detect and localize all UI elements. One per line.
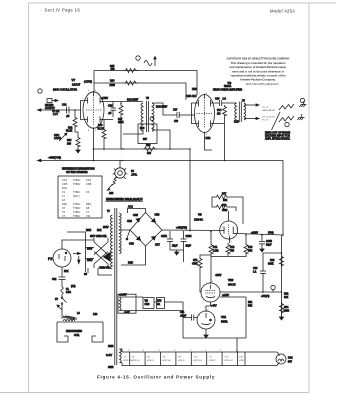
svg-text:AMP-ADJ: AMP-ADJ [186,95,197,98]
svg-text:BLK+WHT: BLK+WHT [156,106,168,109]
svg-text:HTR 3,4: HTR 3,4 [225,360,234,362]
terminal 3 circled [300,98,304,102]
capacitor C24 [67,107,70,114]
degaussing bracket [57,322,103,342]
svg-text:C27: C27 [173,109,178,112]
heater labels [124,357,244,363]
waveform head drive top [279,104,294,110]
tube V8 internals [192,95,215,129]
svg-text:150: 150 [111,68,116,71]
svg-text:F1: F1 [62,190,66,194]
wire T5 right bottom [152,130,170,149]
svg-text:56K: 56K [248,305,253,308]
wire V7 cathode [74,110,76,116]
wire T6 out bottom [244,118,257,120]
svg-text:HTR: HTR [206,137,211,140]
svg-text:C24: C24 [62,178,67,182]
svg-text:5: 5 [220,350,221,352]
svg-text:1080: 1080 [110,84,116,87]
svg-text:1: 1 [128,350,129,352]
copyright notice block [227,58,290,87]
wire P2 down [61,267,63,277]
wire grid row [210,255,213,283]
svg-text:25µF: 25µF [186,245,192,248]
bias module box [118,294,136,313]
thermistor arrow [58,306,62,310]
svg-text:56.2K: 56.2K [66,130,73,133]
svg-text:#47: #47 [288,361,293,364]
svg-text:R69: R69 [146,144,151,147]
fuse F3 [113,166,128,179]
selector switch S8 [86,238,109,272]
svg-text:T7: T7 [86,210,90,214]
wire F3 top lead [119,161,121,166]
heater bus bottom [120,363,278,366]
ground V11 [205,329,207,333]
svg-text:RED: RED [128,262,133,265]
svg-text:GRY ORN+YEL: GRY ORN+YEL [90,235,108,238]
wire P2 top [62,240,94,249]
svg-text:THRU: THRU [73,214,80,218]
svg-text:TO CLUTCH: TO CLUTCH [262,117,275,119]
svg-text:TO #5: TO #5 [262,120,269,122]
svg-text:68K: 68K [223,199,228,202]
svg-text:and maintenance of Hewlett-Pac: and maintenance of Hewlett-Packard equip… [230,65,287,69]
svg-text:4000: 4000 [222,209,228,212]
svg-text:6AU6: 6AU6 [228,283,236,287]
reference designators box [58,176,102,218]
svg-text:(-175V): (-175V) [84,80,92,83]
wire bridge left [121,229,130,231]
node 6 circled [150,117,154,121]
svg-text:0.6A: 0.6A [66,291,71,294]
capacitor C27 [177,112,179,118]
fuse F1 [61,287,64,294]
tube V10 envelope [201,283,220,302]
wire V7 plate to T5 [104,101,143,103]
svg-text:V7: V7 [62,214,66,218]
svg-text:CR6: CR6 [129,243,134,246]
wire second rail [94,83,186,100]
terminal 4 circled [285,122,289,126]
resistor R63 [102,128,106,140]
svg-text:4: 4 [143,350,144,352]
wire C28 to T6 [222,102,237,104]
svg-text:C32: C32 [52,278,57,281]
tube pin dots [93,91,230,312]
switch S8 wiper [104,253,111,262]
wire T5 left bottom [123,130,143,134]
svg-text:(A07): (A07) [73,194,80,198]
svg-text:CR8: CR8 [155,214,160,217]
svg-text:CR5: CR5 [133,214,138,217]
svg-text:CR5: CR5 [62,182,68,186]
transformer T7 heater winding [120,349,122,363]
svg-text:CR8: CR8 [86,182,92,186]
resistor R74 [223,105,227,117]
svg-text:100K: 100K [284,310,290,313]
svg-text:204C OSCILLATOR: 204C OSCILLATOR [53,88,77,92]
svg-text:HTR 3,4: HTR 3,4 [194,360,203,362]
svg-text:THRU: THRU [73,202,80,206]
svg-text:470K: 470K [192,263,198,266]
resistor R66 [124,81,138,85]
tube V11 envelope [197,311,215,329]
svg-text:P2: P2 [48,257,52,261]
switch S7 [61,295,63,298]
wire -465 rail [39,160,284,162]
svg-text:10K: 10K [284,296,289,299]
svg-text:A02: A02 [109,192,114,195]
svg-text:A02: A02 [93,313,98,316]
svg-text:ON THIS DIAGRAM: ON THIS DIAGRAM [66,171,87,174]
svg-text:Model 425A: Model 425A [270,9,295,14]
svg-text:S7: S7 [62,206,66,210]
resistor box R68 matched pair [138,124,157,144]
pointer line [272,112,281,130]
resistor R64 [76,136,80,148]
svg-text:THRU: THRU [73,206,80,210]
wire C29 down [262,273,264,292]
tube V10 internals [206,285,216,298]
lamp DS1 [276,354,286,364]
wire meter output [39,109,82,111]
rectifier CR9 box [143,298,154,309]
svg-text:GRN: GRN [108,366,114,369]
wire T5 right top [152,103,170,115]
tube V11 internals [202,313,212,325]
wire bridge top [128,209,146,214]
svg-text:+175V: +175V [101,97,108,100]
svg-text:R60: R60 [62,202,67,206]
capacitor C26B [261,235,263,241]
svg-text:THRU: THRU [73,210,80,214]
wire C27 [170,114,177,116]
svg-text:5: 5 [190,350,191,352]
capacitor C25B [183,231,185,239]
svg-text:5651: 5651 [221,320,228,324]
wire bias bottom [119,311,183,318]
diode bridge [130,213,162,247]
svg-text:68K: 68K [248,250,253,253]
resistor R67 [119,104,123,116]
transformer T7 primary [110,215,112,269]
meter output arrow icon [47,99,58,103]
svg-text:reproduced without written con: reproduced without written consent of th… [231,74,286,78]
wire bridge bottom [121,246,146,265]
svg-text:S8: S8 [86,206,90,210]
wire S7 down [61,304,63,309]
wire feedback loop bottom [183,337,246,339]
svg-text:This drawing is intended for t: This drawing is intended for the operati… [231,61,286,65]
svg-text:BLK+WHT: BLK+WHT [127,99,139,102]
heater cells [130,352,245,366]
svg-text:C24: C24 [62,104,67,107]
chassis bottom [298,114,305,120]
svg-text:DS1: DS1 [288,357,293,360]
svg-text:100: 100 [67,143,72,146]
svg-text:Sect.IV Page 16: Sect.IV Page 16 [45,8,81,13]
svg-text:F3: F3 [86,190,90,194]
svg-text:C25B: C25B [186,235,192,238]
svg-text:C25A: C25A [161,235,167,238]
svg-text:AMPL INTERCHANGE.: AMPL INTERCHANGE. [265,138,290,141]
tube V7 internals [81,92,105,125]
svg-text:470: 470 [230,250,235,253]
transformer T6 [235,102,246,123]
svg-text:C26: C26 [108,105,113,108]
svg-text:Hewlett-Packard Company.: Hewlett-Packard Company. [240,78,275,82]
svg-text:V11: V11 [86,214,91,218]
wire V10 screen out [220,297,246,338]
wire V8 bottom [205,133,213,151]
svg-text:587: 587 [143,138,148,141]
svg-text:BLK: BLK [97,229,102,232]
tube V9 internals [224,225,238,244]
svg-text:470: 470 [174,120,179,123]
svg-text:HTR 9: HTR 9 [147,360,154,362]
capacitor C26 [111,108,117,110]
svg-text:800K: 800K [268,263,274,266]
svg-text:425A-CD2-A(PW)-1(SK)(AGO): 425A-CD2-A(PW)-1(SK)(AGO) [246,83,279,86]
svg-text:-245V: -245V [215,274,222,277]
svg-text:R84: R84 [86,202,91,206]
resistor R77 [215,195,229,199]
wire C26 leads [112,102,114,109]
wire bias mid [154,301,157,303]
waveform head drive bottom [279,116,294,122]
svg-text:COIL: COIL [74,334,80,337]
svg-text:1K: 1K [157,303,160,306]
ground C26B [261,244,263,247]
svg-text:THRU: THRU [73,178,80,182]
svg-text:CR9: CR9 [145,303,150,306]
svg-text:GRID DRIVE: GRID DRIVE [262,110,275,112]
resistor R78 [215,205,229,209]
wire T6 out top [244,104,257,106]
svg-text:+450(750): +450(750) [176,227,187,230]
svg-text:C28: C28 [215,98,220,101]
chassis top [300,101,307,107]
svg-text:GRN: GRN [108,345,114,348]
svg-text:DS1: DS1 [62,186,68,190]
svg-text:R66: R66 [110,80,115,83]
svg-text:R68: R68 [140,127,145,130]
svg-text:BLK: BLK [64,270,69,273]
resistor R84 [280,302,284,314]
svg-text:Figure 4-15. Oscillator and: Figure 4-15. Oscillator and Power Supply [97,375,215,380]
wire V10 cathode [206,302,211,311]
svg-text:R78: R78 [222,204,227,207]
resistor R65 [124,69,138,73]
node 2 circled [271,285,275,289]
wire R77 R78 loop [212,197,215,207]
arrow at P2 [73,253,79,255]
wire C25 bottoms [170,241,184,250]
resistor R75 [200,255,211,257]
wire box C29 [263,252,282,254]
svg-text:150: 150 [147,152,152,155]
wire S8 to T7 [67,232,86,244]
svg-text:(F2): (F2) [71,285,76,288]
svg-text:HTR 4,5: HTR 4,5 [132,360,141,362]
svg-text:4: 4 [174,350,175,352]
svg-text:THRU: THRU [73,190,80,194]
svg-text:V10: V10 [228,278,234,282]
transformer T7 bias winding [119,297,121,311]
transformer T7 HV secondary [119,213,121,254]
svg-text:V11: V11 [221,315,227,319]
svg-text:HEAD DRIVE AMPLIFIER: HEAD DRIVE AMPLIFIER [213,88,242,91]
svg-text:UNGROUNDED: R60,61,62,63,74: UNGROUNDED: R60,61,62,63,74 [106,198,143,201]
svg-text:CR7: CR7 [155,244,160,247]
wire R74 bottom [214,117,224,124]
svg-text:R77: R77 [222,193,227,196]
label T6 outputs [262,107,275,122]
svg-text:HTR: HTR [192,88,197,91]
svg-text:25µF: 25µF [172,245,178,248]
wire V8 cathode down [224,124,226,161]
transformer T7 core [114,208,116,365]
transformer T5 [141,101,154,132]
svg-text:AC2: AC2 [128,206,133,209]
svg-text:12B4A: 12B4A [194,218,203,222]
svg-text:BRN: BRN [86,229,91,232]
svg-text:6.3V: 6.3V [106,353,112,357]
svg-text:V9: V9 [198,213,202,217]
svg-text:4: 4 [205,350,206,352]
node 1 circled [38,89,42,93]
svg-text:.37SL: .37SL [131,174,138,177]
tube V8 envelope [195,95,215,133]
svg-text:2.2M: 2.2M [213,250,218,253]
wire C31 [183,317,192,319]
wire top rail B+ [94,71,197,96]
svg-text:RED: RED [234,121,239,124]
wire R75 down [200,269,201,292]
ground under R64 [76,148,80,153]
capacitor C32 [59,277,66,279]
capacitor C25A [169,231,171,239]
wire bias top [119,296,143,298]
ground R84 [279,315,283,320]
svg-text:THRU: THRU [73,182,80,186]
resistor R80 [280,255,284,267]
resistor R79 [245,235,247,243]
wire V8 plate to C28 [214,102,219,104]
heater bus top [120,349,278,352]
svg-text:CR6: CR6 [127,220,132,223]
svg-text:115V: 115V [87,247,93,250]
svg-text:+140V: +140V [222,294,229,297]
tube V9 envelope [220,221,238,239]
waveform symbol top [144,61,152,66]
resistor R62 [73,116,77,128]
ground C25 [175,250,179,255]
svg-text:V7: V7 [72,78,76,82]
svg-text:HTR: HTR [239,360,244,362]
svg-text:-465(745): -465(745) [48,156,61,160]
node 5 circled [136,56,140,60]
wire mid vertical [120,103,122,104]
svg-text:+47V: +47V [211,305,217,308]
wire cathode row [93,148,191,150]
svg-text:TO #1: TO #1 [262,107,269,109]
svg-text:HTR 9: HTR 9 [178,360,185,362]
svg-text:230V: 230V [103,226,109,229]
wire C32 down [61,279,63,287]
capacitor C29 [260,271,266,273]
svg-text:HTR 9: HTR 9 [209,360,216,362]
svg-text:(760): (760) [268,232,274,235]
heater pin ticks [128,350,237,352]
resistor R72 [226,243,230,255]
wire right vertical main [282,161,284,236]
svg-text:5: 5 [159,350,160,352]
svg-text:230V: 230V [87,259,93,262]
svg-text:ORN+YEL: ORN+YEL [99,267,111,270]
plug P2 [53,249,71,267]
resistor R70 box [157,298,165,309]
stub bridge left tap [127,230,130,238]
wire screen vertical [189,149,191,231]
svg-text:T5: T5 [62,210,66,214]
svg-text:20µF: 20µF [266,244,272,247]
svg-text:DEGAUSSING: DEGAUSSING [66,330,82,333]
resistor R69 [143,147,157,151]
tube V7 envelope [83,92,104,128]
svg-text:12AU7: 12AU7 [72,82,81,86]
svg-text:C32: C32 [86,178,91,182]
F3 pigtail to A02 [112,177,116,185]
wire V9 out [238,234,283,236]
wire bridge output [162,229,224,232]
capacitor C28 [220,100,222,106]
choke L8 [62,309,63,318]
wire heater drop [236,338,238,352]
svg-text:-6.3V: -6.3V [124,311,130,314]
svg-text:HTR 3,4: HTR 3,4 [163,360,172,362]
svg-text:2.7V: 2.7V [53,113,58,116]
svg-text:COPYRIGHT 1956 BY HEWLETT-PACK: COPYRIGHT 1956 BY HEWLETT-PACKARD COMPAN… [227,58,290,61]
svg-text:+75(74): +75(74) [261,295,270,298]
svg-text:1M: 1M [217,113,220,116]
svg-text:+280V: +280V [251,232,258,235]
capacitor C31 [192,315,194,321]
wire V10 plate out [220,291,282,293]
svg-text:56.7K: 56.7K [98,128,105,131]
svg-text:ment and is not to be used oth: ment and is not to be used otherwise or [232,69,285,73]
resistor R71 [210,232,212,243]
